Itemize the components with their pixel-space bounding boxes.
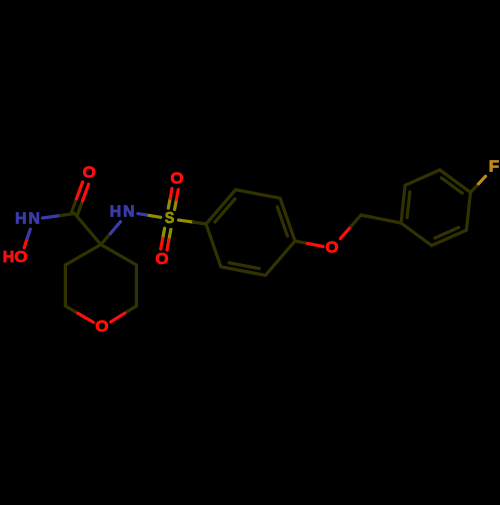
bond N1-C1 amide [43, 216, 61, 219]
ring1 edge [221, 267, 266, 276]
THP ring bond [101, 245, 137, 266]
double bond S=O lower [163, 228, 165, 238]
svg-text:O: O [170, 170, 183, 187]
double bond S=O upper [175, 200, 177, 210]
bond CH2-ring2 [361, 215, 401, 223]
svg-text:N: N [123, 203, 134, 220]
svg-text:O: O [155, 251, 168, 268]
ring2 edge [405, 170, 440, 185]
ring2 edge [401, 223, 432, 246]
ring2 edge [401, 185, 405, 223]
THP ring bond [135, 265, 138, 306]
svg-text:O: O [14, 249, 27, 266]
ring2 edge [432, 230, 467, 245]
svg-text:O: O [83, 165, 96, 182]
bond C2-N2 sulfonamide N [101, 234, 111, 245]
svg-text:S: S [165, 210, 175, 227]
bond C-F [471, 184, 479, 193]
ring2 edge [440, 170, 471, 193]
bond ring1-O ether [295, 241, 308, 243]
bond S-ring1 [179, 220, 194, 222]
THP C-O bond [125, 306, 137, 313]
svg-text:F: F [489, 159, 500, 176]
bond N2-S [138, 214, 149, 216]
ring1 edge [236, 190, 281, 199]
bond O-N (hydroxylamine) [24, 238, 27, 247]
bond C1-C2 [75, 214, 101, 245]
ring1 edge [280, 198, 295, 241]
svg-text:H: H [110, 203, 121, 220]
ring1 edge [206, 190, 236, 224]
ring2 edge [466, 192, 470, 230]
ring1 edge [265, 241, 295, 275]
svg-text:O: O [325, 240, 338, 257]
bond O-CH2 [340, 226, 351, 238]
svg-text:O: O [95, 319, 108, 336]
THP ring bond [65, 245, 100, 266]
svg-text:H: H [15, 211, 26, 228]
THP ring bond [64, 265, 67, 306]
THP C-O bond [65, 306, 77, 313]
ring1 edge [206, 224, 221, 267]
svg-text:H: H [3, 249, 14, 266]
double bond C1=O2 carbonyl [78, 201, 83, 215]
svg-text:N: N [29, 211, 40, 228]
